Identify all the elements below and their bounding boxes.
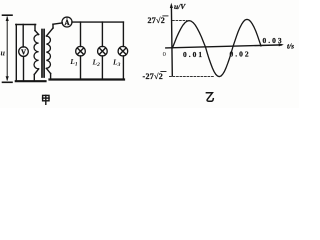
svg-text:u: u — [1, 49, 6, 58]
svg-text:L3: L3 — [112, 57, 121, 68]
wire left vertical — [15, 25, 17, 82]
dashed line +27sqrt2 — [173, 20, 188, 22]
svg-text:L2: L2 — [92, 57, 101, 68]
transformer T1 secondary coil — [46, 24, 53, 79]
wire secondary top right — [72, 21, 123, 23]
svg-text:u/V: u/V — [174, 2, 186, 11]
wire lamp L1 branch — [80, 22, 82, 46]
svg-text:V: V — [21, 49, 26, 57]
source voltage indicator u — [3, 15, 13, 82]
svg-text:0: 0 — [163, 51, 166, 58]
svg-text:t/s: t/s — [287, 42, 294, 51]
wire voltmeter branch bottom — [23, 56, 25, 81]
svg-text:-27√2: -27√2 — [143, 72, 164, 81]
svg-text:0.01: 0.01 — [183, 50, 204, 59]
voltmeter V — [19, 47, 29, 57]
svg-text:27√2: 27√2 — [148, 16, 166, 25]
wire bottom primary — [16, 80, 46, 82]
wire lamp L3 branch (right edge) — [122, 22, 124, 46]
lamp L1 — [76, 46, 86, 56]
wire voltmeter branch top — [22, 25, 24, 48]
lamp L2 — [98, 46, 108, 56]
svg-text:0.03: 0.03 — [263, 36, 284, 45]
wire top primary — [16, 24, 36, 26]
dashed line -27sqrt2 — [170, 76, 216, 78]
y-axis u/V — [170, 6, 173, 76]
transformer T1 core — [41, 30, 43, 78]
label yi (Chinese 乙) drawn strokes — [206, 93, 213, 101]
wire bottom secondary — [50, 78, 125, 80]
svg-text:0.02: 0.02 — [230, 50, 251, 59]
label jia (Chinese 甲) drawn strokes — [43, 95, 49, 104]
x-axis t/s — [166, 45, 282, 48]
ammeter A — [62, 17, 72, 27]
sine curve u(t) — [173, 19, 262, 76]
wire lamp L2 branch — [101, 22, 103, 46]
lamp L3 — [118, 46, 128, 56]
wire secondary top left — [53, 23, 62, 24]
transformer T1 primary coil — [34, 25, 39, 82]
svg-text:L1: L1 — [69, 57, 78, 68]
